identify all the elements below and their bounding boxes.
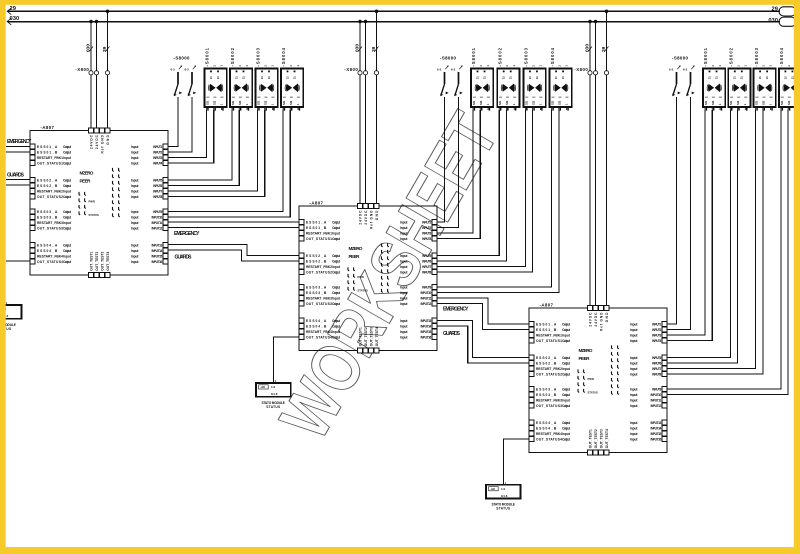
net 29 left break symbol: [7, 8, 11, 15]
junction right 030-2: [594, 20, 598, 24]
wire sensor G2 pin1 to INPUT1: [437, 97, 445, 222]
wire 29 drop left: [107, 11, 109, 130]
wire 030 drop left (2): [96, 22, 98, 131]
wire sensor G1 pin8 to INPUT8: [168, 110, 265, 197]
svg-text:030: 030: [768, 18, 778, 24]
junction left 030-1: [89, 20, 93, 24]
svg-text:GUARDS: GUARDS: [7, 172, 25, 178]
junction right 29: [605, 10, 609, 14]
wire sensor G3 pin3 to INPUT3: [667, 110, 705, 335]
svg-text:-A8: -A8: [490, 487, 495, 491]
svg-text:29: 29: [10, 6, 17, 12]
junction left 29: [106, 10, 110, 14]
wire emergency block2 INPUT11 to block3 ESS01_A: [437, 298, 529, 324]
svg-text:-S8000: -S8000: [440, 56, 457, 61]
wire block2 OUT_STATUS4 to module M2: [274, 337, 300, 387]
wire emergency block2 INPUT12 to block3 ESS01_B: [437, 304, 529, 330]
wire sensor G3 pin2 to INPUT2: [667, 97, 691, 330]
svg-text:E1.6: E1.6: [501, 494, 508, 498]
wire emergency A to block1: [6, 146, 30, 148]
wire guards block2 INPUT14 to block3 ESS02_B: [437, 326, 529, 363]
wire sensor G3 pin5 to INPUT5: [667, 110, 730, 358]
svg-text:1.0: 1.0: [501, 487, 506, 491]
wire block1 OUT_STATUS4 to left module: [6, 260, 30, 262]
net 030 left break symbol: [7, 18, 11, 25]
switch -S8000 contact b G2: [451, 66, 463, 97]
switch -S8000 contact b G1: [185, 66, 197, 97]
wire sensor G3 pin7 to INPUT7: [667, 110, 756, 369]
wire sensor G2 pin5 to INPUT5: [437, 110, 499, 256]
svg-text:GUARDS: GUARDS: [175, 255, 193, 261]
wire sensor G3 pin10 to INPUT10: [667, 110, 788, 395]
junction right 030-1: [588, 20, 592, 24]
junction mid 29: [375, 10, 379, 14]
wire sensor G2 pin6 to INPUT6: [437, 110, 506, 261]
wire sensor G3 pin8 to INPUT8: [667, 110, 763, 374]
wire 030 drop right (2): [595, 22, 597, 309]
wire guards B to block1: [6, 184, 30, 186]
wire sensor G1 pin7 to INPUT7: [168, 110, 258, 191]
wire sensor G1 pin4 to INPUT4: [168, 110, 214, 163]
svg-text:29: 29: [371, 46, 377, 52]
switch -S8000 contact a G2: [437, 66, 449, 97]
net 29 right off-page connector: [779, 7, 796, 16]
wire sensor G2 pin10 to INPUT10: [437, 110, 559, 293]
wire sensor G2 pin3 to INPUT3: [437, 110, 473, 233]
svg-text:29: 29: [601, 46, 607, 52]
wire sensor G2 pin2 to INPUT2: [437, 97, 459, 228]
wire sensor G3 pin4 to INPUT4: [667, 110, 712, 341]
svg-text:EMERGENCY: EMERGENCY: [174, 231, 200, 237]
wire sensor G1 pin3 to INPUT3: [168, 110, 207, 158]
svg-text:-X800: -X800: [344, 67, 358, 72]
wire emergency block1 INPUT12 to block2 ESS01_B: [168, 227, 299, 229]
svg-text:-S8002: -S8002: [497, 47, 502, 66]
svg-text:-S8003: -S8003: [754, 47, 759, 66]
svg-text:-X800: -X800: [75, 67, 89, 72]
wire guards block1 INPUT13 to block2 ESS02_A: [168, 245, 299, 256]
wire 030 drop right (1): [589, 22, 591, 309]
svg-text:E1.6: E1.6: [271, 392, 278, 396]
junction left 030-2: [95, 20, 99, 24]
wire sensor G1 pin1 to INPUT1: [168, 97, 178, 147]
svg-text:EMERGENCY: EMERGENCY: [443, 307, 469, 313]
svg-text:29: 29: [102, 46, 108, 52]
svg-text:EMERGENCY: EMERGENCY: [7, 139, 32, 145]
wire 030 drop left (1): [90, 22, 92, 131]
wire sensor G1 pin9 to INPUT9: [168, 110, 283, 212]
page frame border: [0, 0, 800, 5]
svg-text:-S8001: -S8001: [703, 47, 708, 66]
net 030 right off-page connector: [779, 17, 796, 26]
svg-text:030: 030: [354, 44, 360, 52]
svg-text:-S8001: -S8001: [471, 47, 476, 66]
junction mid 030-2: [364, 20, 368, 24]
svg-text:-S8003: -S8003: [256, 47, 261, 66]
switch -S8000 contact a G3: [669, 66, 681, 97]
svg-text:-X800: -X800: [574, 67, 588, 72]
wire sensor G3 pin1 to INPUT1: [667, 97, 677, 324]
wire sensor G3 pin6 to INPUT6: [667, 110, 738, 363]
IC module -A807 #3 (MZERO PEER): [529, 302, 667, 455]
wire sensor G2 pin7 to INPUT7: [437, 110, 525, 267]
wire sensor G1 pin5 to INPUT5: [168, 110, 232, 180]
wire sensor G1 pin10 to INPUT10: [168, 110, 290, 217]
junction mid 030-1: [358, 20, 362, 24]
wire 29 drop right: [606, 11, 608, 308]
svg-text:030: 030: [10, 16, 20, 22]
svg-text:STATUS: STATUS: [496, 507, 510, 511]
svg-text:-S8004: -S8004: [550, 47, 555, 66]
IC module -A807 #2 (MZERO PEER): [299, 200, 437, 353]
IC module -A807 #1 (MZERO PEER): [30, 125, 168, 278]
svg-text:STATUS: STATUS: [266, 405, 280, 409]
wire block3 OUT_STATUS4 to module M3: [503, 439, 529, 488]
wire guards block1 INPUT14 to block2 ESS02_B: [168, 250, 299, 261]
svg-text:-S8002: -S8002: [729, 47, 734, 66]
svg-text:1.0: 1.0: [271, 385, 276, 389]
wire sensor G1 pin2 to INPUT2: [168, 97, 192, 152]
wire 030 drop mid (1): [359, 22, 361, 207]
wire guards A to block1: [6, 179, 30, 181]
svg-text:030: 030: [584, 44, 590, 52]
net 29 bus line: [7, 10, 780, 12]
svg-text:-A8: -A8: [260, 385, 265, 389]
wire sensor G2 pin9 to INPUT9: [437, 110, 552, 287]
wire emergency B to block1: [6, 151, 30, 153]
wire sensor G2 pin8 to INPUT8: [437, 110, 533, 272]
switch -S8000 contact b G3: [683, 66, 695, 97]
status module M1: [0, 305, 21, 319]
svg-text:-S8004: -S8004: [281, 47, 286, 66]
svg-text:-S8001: -S8001: [205, 47, 210, 66]
svg-text:-S8000: -S8000: [174, 56, 191, 61]
wire sensor G3 pin9 to INPUT9: [667, 110, 781, 389]
wire sensor G2 pin4 to INPUT4: [437, 110, 480, 239]
wire 030 drop mid (2): [365, 22, 367, 207]
status module M3: [486, 485, 521, 499]
wire emergency block1 INPUT11 to block2 ESS01_A: [168, 221, 299, 223]
svg-text:-S8002: -S8002: [230, 47, 235, 66]
svg-text:-S8004: -S8004: [779, 47, 784, 66]
switch -S8000 contact a G1: [171, 66, 183, 97]
wire guards block2 INPUT13 to block3 ESS02_A: [437, 321, 529, 358]
svg-text:GUARDS: GUARDS: [443, 331, 461, 337]
wire 29 drop mid: [376, 11, 378, 206]
svg-text:-S8000: -S8000: [672, 56, 689, 61]
status module M2: [256, 383, 291, 397]
svg-text:29: 29: [772, 6, 779, 12]
svg-text:-S8003: -S8003: [524, 47, 529, 66]
wire sensor G1 pin6 to INPUT6: [168, 110, 239, 186]
svg-text:030: 030: [85, 44, 91, 52]
net 030 bus line: [7, 21, 780, 23]
